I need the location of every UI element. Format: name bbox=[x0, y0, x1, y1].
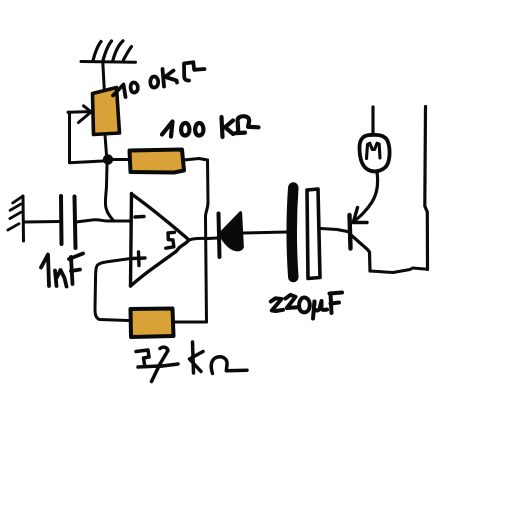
wire wiper left and down to node A bbox=[70, 112, 104, 162]
capacitor C2 negative plate (thick) bbox=[292, 188, 294, 278]
transistor Q1 collector wire bbox=[351, 235, 370, 271]
wire R2 right to feedback vertical bbox=[184, 159, 208, 161]
op-amp non-inverting input label + bbox=[133, 252, 146, 266]
wire diode to capacitor C2 bbox=[244, 232, 288, 233]
wire op-amp + input to feedback bbox=[95, 259, 131, 321]
node A junction dot bbox=[103, 154, 113, 164]
potentiometer wiper arrow bbox=[68, 106, 91, 123]
transistor Q1 emitter wire from motor bbox=[354, 172, 378, 221]
capacitor C2 positive plate (outline) bbox=[307, 189, 320, 279]
transistor Q1 emitter arrowhead bbox=[353, 208, 368, 223]
resistor R2 100k body bbox=[130, 150, 185, 173]
capacitor C1 left plate bbox=[59, 196, 64, 244]
op-amp U1 triangle bbox=[131, 194, 189, 287]
wire R4 to feedback vertical bbox=[174, 321, 207, 324]
wire pot bottom to node A bbox=[105, 135, 107, 155]
potentiometer R1 body bbox=[93, 88, 120, 135]
op-amp inverting input label - bbox=[135, 215, 144, 219]
wire feedback vertical (R2/R4 junction line) bbox=[205, 160, 208, 322]
wire node A down to inverting input bbox=[105, 164, 113, 220]
label 100kΩ (R2) bbox=[162, 116, 259, 137]
wire C1 to inverting input bbox=[76, 220, 130, 222]
transistor Q1 base bar bbox=[350, 215, 351, 249]
op-amp pin label 5 bbox=[166, 232, 175, 248]
wire node A to resistor R2 bbox=[113, 158, 129, 161]
motor label M bbox=[367, 143, 381, 158]
label 1nF bbox=[41, 254, 83, 287]
resistor R4 2.2k body bbox=[131, 309, 174, 338]
label 100kΩ (potentiometer) bbox=[113, 62, 205, 97]
diode D1 triangle bbox=[221, 213, 243, 250]
wire right rail vertical bbox=[425, 107, 428, 270]
ground GND1 (top, hatched) bbox=[81, 41, 136, 62]
wire motor top rail bbox=[371, 107, 374, 134]
capacitor C1 right plate bbox=[75, 197, 76, 249]
ground GND2 (left, hatched) bbox=[8, 196, 24, 241]
diode D1 cathode bar bbox=[219, 214, 220, 258]
motor M1 body bbox=[360, 135, 390, 171]
wire op-amp output to diode bbox=[189, 238, 217, 240]
label 2,2 kΩ bbox=[136, 342, 247, 382]
wire C2 to transistor base bbox=[321, 229, 350, 233]
label 220µF bbox=[271, 293, 342, 319]
wire collector to right rail (bottom) bbox=[370, 268, 428, 273]
wire ground to potentiometer top bbox=[103, 62, 105, 90]
wire GND2 to capacitor C1 bbox=[24, 220, 59, 224]
